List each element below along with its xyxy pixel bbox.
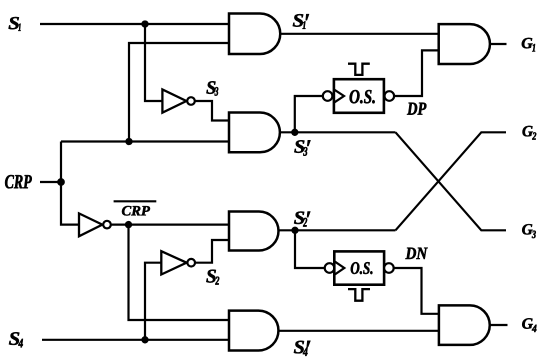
one-shot U2 clock symbol	[335, 262, 344, 275]
wire S1' output to G1	[280, 33, 438, 35]
wire y141 bus to S3' gate	[61, 140, 229, 142]
wire S4' output to G4	[279, 330, 439, 332]
node S3'	[291, 129, 298, 136]
wire S2' output	[279, 229, 396, 231]
pulse symbol U2	[348, 289, 370, 301]
wire CRP stub	[40, 181, 61, 183]
one-shot U1 label O.S.	[350, 90, 375, 103]
wire AND S1' lower input from rail A	[129, 43, 229, 142]
label S1prime	[293, 14, 309, 29]
wire G1 output	[490, 43, 507, 45]
AND gate S1'	[229, 14, 280, 55]
one-shot U1 box	[334, 79, 384, 113]
wire rail A lower to S4' gate	[129, 225, 230, 320]
node S4 branch	[142, 336, 149, 343]
node S2'	[292, 227, 299, 234]
label S1	[9, 17, 21, 31]
AND gate G4	[439, 305, 490, 345]
AND gate G1	[439, 24, 490, 64]
inverter CRP triangle	[79, 213, 102, 236]
wire diagonal S2' to G2	[396, 132, 507, 230]
inverter S2 triangle	[161, 251, 186, 274]
wire DP to G1	[394, 50, 439, 96]
wire S3' output	[280, 131, 396, 133]
label G3	[522, 224, 536, 238]
one-shot U2 input bubble	[325, 263, 335, 273]
node CRP	[57, 178, 64, 185]
wire S2' to one-shot DN	[295, 230, 325, 268]
label G4	[522, 318, 536, 332]
AND gate S3'	[229, 113, 280, 153]
node CRPbar	[125, 221, 132, 228]
wire S3 to S3' gate	[195, 101, 229, 121]
wire DN to G4	[394, 268, 439, 314]
wire CRP vertical rail	[61, 142, 79, 225]
wire S4 input	[42, 339, 229, 341]
node S1 branch	[142, 21, 149, 28]
label CRPbar	[122, 206, 150, 216]
label G2	[523, 126, 537, 140]
wire S1 to S3 inverter	[145, 24, 162, 101]
label S2	[206, 270, 219, 285]
label S4	[9, 332, 23, 347]
one-shot U2 output bubble	[384, 263, 394, 273]
label CRP	[5, 175, 32, 188]
wire CRPbar to S2' gate	[111, 224, 229, 226]
node rail A on y141 bus	[126, 138, 133, 145]
wire S2 to S2' gate	[195, 240, 229, 263]
one-shot U1 output bubble	[385, 91, 395, 101]
inverter S2 bubble	[187, 259, 195, 267]
wire diagonal S3' to G3	[396, 132, 507, 230]
one-shot U1 input bubble	[323, 91, 333, 101]
label S3	[206, 81, 218, 95]
AND gate S4'	[229, 311, 278, 351]
pulse symbol U1	[348, 64, 370, 75]
wire S3' to one-shot DP	[295, 96, 323, 132]
label S4prime	[294, 341, 311, 356]
label S3prime	[294, 140, 310, 155]
one-shot U1 clock symbol	[335, 90, 345, 103]
label S2prime	[294, 212, 310, 227]
inverter S3 bubble	[187, 97, 195, 105]
label CRPbar overline	[114, 200, 157, 202]
wire S4 to S2 inverter	[145, 263, 161, 340]
label DP	[407, 103, 426, 115]
inverter CRP bubble	[103, 221, 111, 229]
label DN	[405, 248, 427, 259]
label G1	[522, 38, 535, 52]
wire S1 input	[40, 23, 229, 25]
one-shot U2 label O.S.	[351, 262, 373, 274]
wire G4 output	[490, 324, 508, 326]
one-shot U2 box	[334, 251, 384, 284]
inverter S3 triangle	[162, 90, 186, 113]
AND gate S2'	[229, 212, 279, 251]
